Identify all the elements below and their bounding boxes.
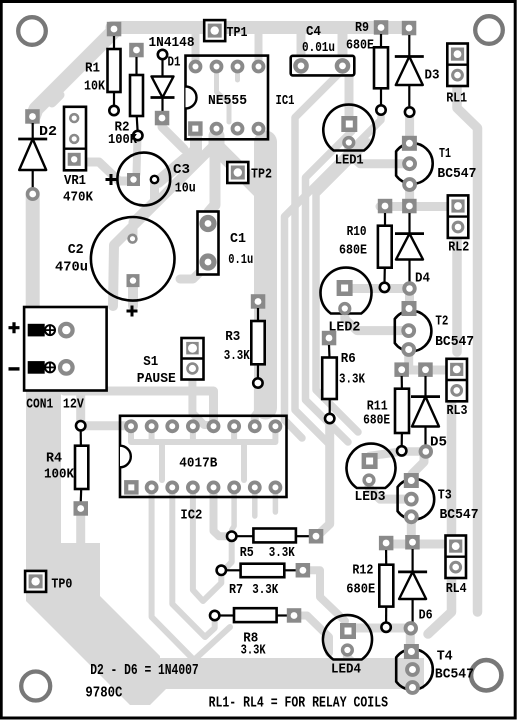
svg-text:100K: 100K [108, 132, 138, 148]
svg-text:R3: R3 [225, 329, 240, 345]
svg-text:D6: D6 [419, 608, 433, 624]
svg-text:D4: D4 [415, 271, 430, 287]
svg-text:TP1: TP1 [227, 25, 248, 41]
svg-text:100K: 100K [44, 467, 75, 483]
svg-text:LED1: LED1 [335, 153, 364, 169]
svg-text:680E: 680E [346, 582, 375, 598]
svg-text:C4: C4 [306, 24, 321, 40]
svg-text:BC547: BC547 [435, 334, 474, 350]
svg-text:T1: T1 [439, 146, 451, 162]
svg-text:D5: D5 [430, 435, 447, 451]
svg-text:470u: 470u [55, 260, 88, 276]
svg-text:10u: 10u [175, 181, 196, 197]
svg-text:3.3K: 3.3K [269, 545, 295, 561]
svg-text:3.3K: 3.3K [339, 372, 365, 388]
svg-text:3.3K: 3.3K [252, 582, 278, 598]
svg-text:12V: 12V [63, 397, 84, 413]
svg-text:BC547: BC547 [440, 507, 479, 523]
svg-text:T2: T2 [435, 314, 448, 330]
svg-text:TP2: TP2 [251, 167, 272, 183]
svg-text:3.3K: 3.3K [224, 348, 250, 364]
svg-text:LED4: LED4 [331, 662, 361, 678]
svg-text:680E: 680E [339, 243, 367, 259]
svg-text:D1: D1 [168, 55, 181, 71]
svg-text:D3: D3 [425, 68, 440, 84]
svg-text:4017B: 4017B [179, 456, 218, 472]
svg-text:R4: R4 [46, 451, 62, 467]
svg-text:RL1: RL1 [446, 91, 467, 107]
svg-text:RL4: RL4 [446, 581, 467, 597]
svg-text:RL1- RL4 = FOR RELAY COILS: RL1- RL4 = FOR RELAY COILS [209, 695, 388, 712]
svg-text:0.01u: 0.01u [302, 40, 335, 56]
svg-text:10K: 10K [84, 79, 105, 95]
svg-text:LED3: LED3 [355, 489, 386, 505]
svg-text:680E: 680E [363, 413, 390, 429]
svg-text:IC2: IC2 [180, 508, 202, 524]
svg-text:BC547: BC547 [435, 667, 474, 683]
svg-text:3.3K: 3.3K [241, 643, 266, 659]
svg-text:RL3: RL3 [447, 403, 468, 419]
svg-text:470K: 470K [63, 190, 94, 206]
svg-text:CON1: CON1 [26, 397, 53, 413]
svg-text:D2: D2 [39, 124, 57, 140]
svg-text:C1: C1 [230, 231, 246, 247]
svg-text:BC547: BC547 [437, 166, 476, 182]
svg-text:R10: R10 [347, 224, 367, 240]
svg-text:NE555: NE555 [208, 93, 247, 109]
svg-text:S1: S1 [143, 354, 158, 370]
svg-text:9780C: 9780C [85, 685, 122, 702]
svg-text:R1: R1 [85, 61, 100, 77]
svg-text:R12: R12 [352, 563, 373, 579]
svg-text:680E: 680E [346, 38, 374, 54]
svg-text:0.1u: 0.1u [228, 252, 253, 268]
svg-text:TP0: TP0 [51, 577, 72, 593]
svg-text:RL2: RL2 [448, 240, 469, 256]
svg-text:PAUSE: PAUSE [137, 371, 176, 387]
svg-text:R6: R6 [341, 351, 356, 367]
svg-text:R9: R9 [355, 20, 369, 36]
svg-text:C2: C2 [68, 242, 84, 258]
svg-text:D2 - D6 = 1N4007: D2 - D6 = 1N4007 [90, 662, 199, 679]
svg-text:C3: C3 [173, 162, 190, 178]
svg-text:R5: R5 [240, 545, 254, 561]
svg-text:1N4148: 1N4148 [149, 35, 195, 51]
svg-text:R7: R7 [229, 582, 243, 598]
svg-text:VR1: VR1 [64, 173, 86, 189]
svg-text:IC1: IC1 [276, 93, 295, 109]
svg-text:T4: T4 [437, 649, 453, 665]
svg-text:T3: T3 [438, 488, 452, 504]
